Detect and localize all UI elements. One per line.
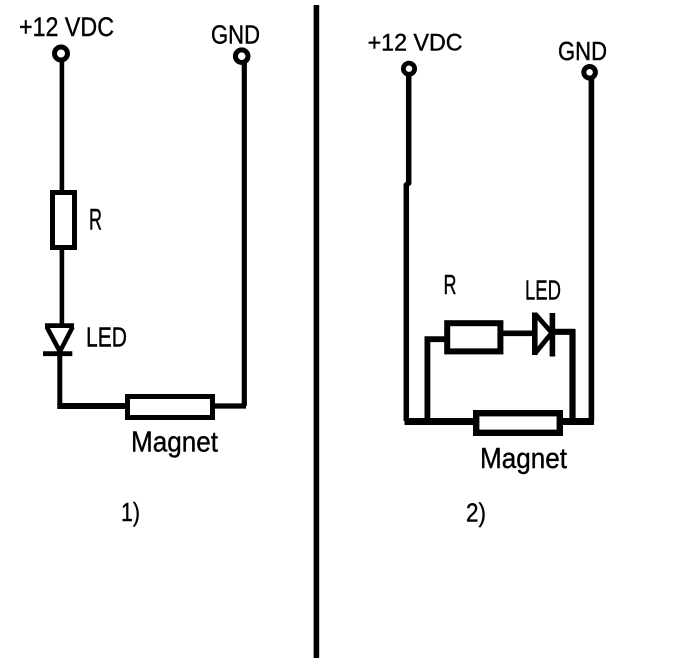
LED diode (circuit 2): [535, 313, 553, 357]
bottom wire (circuit 2): [405, 418, 595, 425]
wire from LED to bottom corner (circuit 1): [57, 352, 62, 405]
svg-text:Magnet: Magnet: [131, 427, 218, 459]
bottom wire from corner to magnet (circuit 1): [57, 403, 140, 409]
inner left branch wire down to bottom (circuit 2): [424, 337, 430, 422]
svg-text:GND: GND: [211, 22, 260, 50]
svg-text:LED: LED: [86, 321, 127, 352]
svg-text:LED: LED: [525, 275, 561, 306]
wire from resistor R to LED (circuit 1): [60, 247, 65, 326]
terminal +12 VDC (circuit 1): [55, 47, 68, 60]
svg-text:1): 1): [121, 499, 140, 527]
svg-text:R: R: [89, 204, 102, 237]
svg-text:2): 2): [466, 500, 486, 528]
terminal GND (circuit 1): [235, 50, 248, 63]
right outer wire from GND terminal (circuit 2): [589, 79, 595, 421]
wire stub to resistor R left node (circuit 2): [425, 336, 451, 342]
svg-text:R: R: [444, 269, 457, 300]
wire riser to GND terminal (circuit 1): [242, 62, 247, 406]
wire from magnet to GND riser (circuit 1): [205, 403, 246, 408]
wire from LED to inner right branch (circuit 2): [552, 329, 575, 335]
inner right branch wire down to bottom (circuit 2): [569, 329, 575, 421]
wire from +12 VDC terminal to resistor R (circuit 1): [60, 60, 65, 193]
svg-text:Magnet: Magnet: [480, 443, 567, 475]
wire from resistor R to LED (circuit 2): [501, 330, 535, 336]
LED diode (circuit 1): [43, 326, 74, 354]
svg-text:+12 VDC: +12 VDC: [368, 30, 463, 57]
terminal GND (circuit 2): [584, 67, 596, 79]
magnet coil (circuit 1): [128, 397, 213, 418]
resistor R (circuit 2): [447, 323, 500, 351]
divider line between circuit 1 and circuit 2: [314, 5, 320, 658]
svg-text:+12 VDC: +12 VDC: [19, 12, 114, 42]
resistor R (circuit 1): [53, 193, 75, 248]
svg-text:GND: GND: [558, 38, 607, 66]
wire from +12 VDC terminal down left side (circuit 2): [406, 74, 408, 421]
terminal +12 VDC (circuit 2): [403, 63, 414, 74]
magnet coil (circuit 2): [476, 413, 560, 433]
